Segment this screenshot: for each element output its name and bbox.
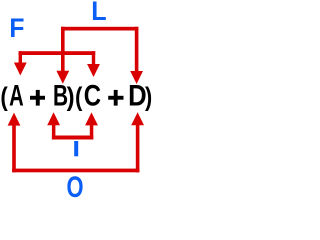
arrowhead up at A (O bracket) [8, 113, 21, 126]
wire: F bracket right leg (to C) [92, 51, 95, 64]
wire: L bracket left leg (to B) [61, 27, 65, 72]
arrowhead up at D (O bracket) [131, 112, 144, 125]
svg-text:(: ( [0, 83, 7, 112]
plus 2 [108, 96, 123, 100]
svg-text:A: A [9, 80, 24, 113]
svg-text:C: C [84, 79, 101, 112]
wire: O bracket right leg [136, 125, 140, 173]
wire: L bracket horizontal [61, 27, 138, 31]
arrowhead up at C (I bracket) [85, 112, 98, 125]
plus 1 [30, 96, 45, 100]
wire: I bracket right leg [90, 125, 94, 140]
wire: I bracket horizontal [52, 136, 93, 140]
svg-text:): ) [145, 84, 152, 112]
svg-text:B: B [53, 80, 68, 112]
wire: O bracket left leg [12, 125, 16, 172]
svg-text:F: F [9, 14, 24, 43]
svg-text:): ) [67, 84, 75, 112]
svg-text:D: D [128, 79, 147, 112]
wire: F bracket left leg (to A) [19, 51, 22, 62]
arrowhead up at B (I bracket) [47, 112, 60, 125]
arrowhead down at C [87, 64, 100, 77]
arrowhead down at A [14, 63, 27, 76]
wire: L bracket right leg (to D) [135, 27, 139, 72]
svg-text:L: L [91, 0, 106, 26]
wire: O bracket horizontal [12, 169, 139, 173]
arrowhead down at B [56, 71, 69, 84]
svg-text:(: ( [75, 83, 82, 112]
wire: I bracket left leg [52, 125, 56, 140]
svg-text:O: O [66, 172, 83, 200]
wire: F bracket horizontal [19, 51, 96, 55]
label I [74, 141, 78, 156]
arrowhead down at D [130, 71, 143, 84]
